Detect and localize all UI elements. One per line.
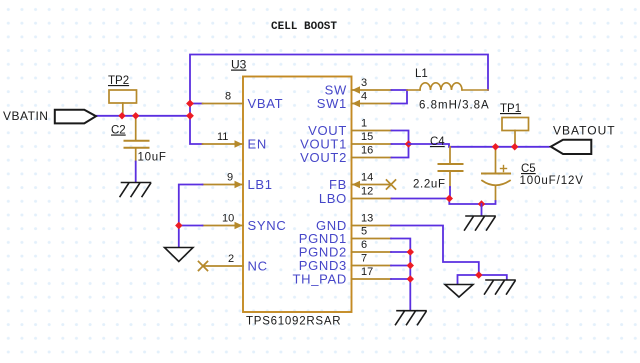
- pin 2 NC: [203, 265, 243, 267]
- wire SW to SW1 jog and L1: [392, 90, 408, 104]
- svg-text:FB: FB: [329, 177, 347, 192]
- svg-text:10: 10: [222, 213, 234, 225]
- wire VOUT rail to VBATOUT: [409, 144, 550, 147]
- svg-text:100uF/12V: 100uF/12V: [520, 175, 584, 187]
- svg-text:2: 2: [228, 253, 234, 265]
- svg-text:3: 3: [361, 77, 367, 89]
- svg-text:TP1: TP1: [500, 103, 521, 115]
- port VBATOUT: [551, 140, 592, 154]
- svg-text:LB1: LB1: [248, 177, 273, 192]
- node C2 junction: [132, 112, 139, 119]
- wire LB1 to SYNC to ground: [179, 185, 203, 248]
- pin 11 EN: [203, 143, 244, 145]
- svg-text:8: 8: [225, 91, 231, 103]
- node PGND3 junction: [407, 262, 414, 269]
- pin 13 GND: [352, 225, 392, 227]
- svg-text:VBATOUT: VBATOUT: [553, 124, 616, 138]
- svg-text:17: 17: [361, 266, 373, 278]
- port VBATIN: [55, 110, 96, 124]
- svg-text:4: 4: [361, 91, 367, 103]
- svg-text:16: 16: [361, 145, 373, 157]
- svg-text:C4: C4: [430, 136, 445, 148]
- node PGND2 junction: [407, 248, 414, 255]
- no-connect X on FB: [387, 180, 396, 189]
- node C4 bottom junction: [446, 195, 453, 202]
- inductor L1: [407, 83, 488, 90]
- testpoint TP2: [109, 90, 137, 103]
- node SYNC junction: [175, 222, 182, 229]
- pin 6 PGND2: [352, 251, 392, 253]
- svg-text:5: 5: [361, 226, 367, 238]
- ground chassis under C2: [120, 183, 151, 197]
- pin 8 VBAT: [203, 103, 244, 105]
- node ground tap junction: [478, 200, 485, 207]
- pin 17 TH_PAD: [352, 278, 392, 280]
- no-connect X on NC: [199, 262, 208, 271]
- node GND branch junction: [475, 271, 482, 278]
- wire top loop from VBAT node to L1 right terminal: [190, 55, 488, 104]
- svg-text:C5: C5: [521, 163, 536, 175]
- capacitor C2: [135, 116, 137, 140]
- svg-text:U3: U3: [231, 58, 247, 72]
- svg-text:NC: NC: [248, 259, 268, 274]
- wire C2 to ground: [135, 162, 137, 182]
- svg-text:9: 9: [227, 172, 233, 184]
- ground chassis under PGND bus: [396, 311, 427, 325]
- svg-text:11: 11: [217, 131, 228, 143]
- svg-text:CELL BOOST: CELL BOOST: [271, 21, 337, 33]
- pin 14 FB: [352, 184, 390, 186]
- ground chassis right of triangle: [485, 280, 516, 294]
- svg-text:VBAT: VBAT: [248, 96, 284, 111]
- node C5 junction: [492, 143, 499, 150]
- pin 12 LBO: [352, 198, 392, 200]
- svg-text:6.8mH/3.8A: 6.8mH/3.8A: [419, 100, 490, 112]
- ground chassis under C4/C5 rail: [465, 216, 496, 230]
- pin 7 PGND3: [352, 265, 392, 267]
- svg-text:EN: EN: [248, 137, 267, 152]
- svg-text:TP2: TP2: [108, 75, 129, 87]
- node TH_PAD junction: [407, 275, 414, 282]
- wire stub to VBAT pin: [190, 103, 203, 105]
- node VBATIN junction: [186, 112, 194, 120]
- svg-text:TPS61092RSAR: TPS61092RSAR: [246, 316, 341, 328]
- node VBAT junction: [186, 100, 194, 108]
- svg-text:1: 1: [361, 118, 367, 130]
- svg-text:LBO: LBO: [319, 191, 347, 206]
- svg-text:TH_PAD: TH_PAD: [292, 272, 347, 287]
- pin 1 VOUT: [352, 130, 392, 132]
- pin 5 PGND1: [352, 238, 392, 240]
- svg-text:L1: L1: [415, 68, 428, 80]
- ground triangle in GND net: [445, 285, 473, 298]
- svg-text:13: 13: [361, 213, 373, 225]
- svg-text:12: 12: [361, 186, 373, 198]
- op-amp U3 body: [243, 77, 352, 313]
- pin 15 VOUT1: [352, 143, 392, 145]
- svg-text:VOUT2: VOUT2: [300, 150, 347, 165]
- svg-text:6: 6: [361, 239, 367, 251]
- wire PGND bus: [391, 239, 410, 311]
- svg-text:VBATIN: VBATIN: [3, 109, 48, 123]
- svg-text:10uF: 10uF: [138, 152, 167, 164]
- node VOUT junction: [405, 140, 412, 147]
- pin 3 SW: [352, 89, 392, 91]
- node TP2 junction: [118, 112, 125, 119]
- svg-text:SW1: SW1: [317, 96, 347, 111]
- svg-text:14: 14: [361, 172, 373, 184]
- capacitor C4: [449, 147, 451, 164]
- wire ground stub: [481, 204, 483, 216]
- wire VBATIN rail: [97, 115, 190, 117]
- capacitor C5 polarized: [495, 147, 497, 173]
- node TP1 junction: [511, 143, 518, 150]
- pin 9 LB1: [203, 184, 244, 186]
- wire VOUT bracket: [392, 131, 409, 158]
- wire VBAT node vertical down to EN: [190, 104, 203, 145]
- wire GND net to grounds: [391, 226, 507, 280]
- svg-text:SYNC: SYNC: [248, 218, 287, 233]
- svg-text:15: 15: [361, 131, 373, 143]
- wire LBO to C4/C5 bottom rail: [392, 199, 496, 205]
- svg-text:C2: C2: [111, 125, 126, 137]
- testpoint TP1: [502, 118, 529, 131]
- svg-text:2.2uF: 2.2uF: [413, 179, 446, 191]
- pin 4 SW1: [352, 103, 392, 105]
- pin 16 VOUT2: [352, 157, 392, 159]
- svg-text:7: 7: [361, 253, 367, 265]
- pin 10 SYNC: [203, 225, 244, 227]
- ground triangle under SYNC: [165, 248, 194, 262]
